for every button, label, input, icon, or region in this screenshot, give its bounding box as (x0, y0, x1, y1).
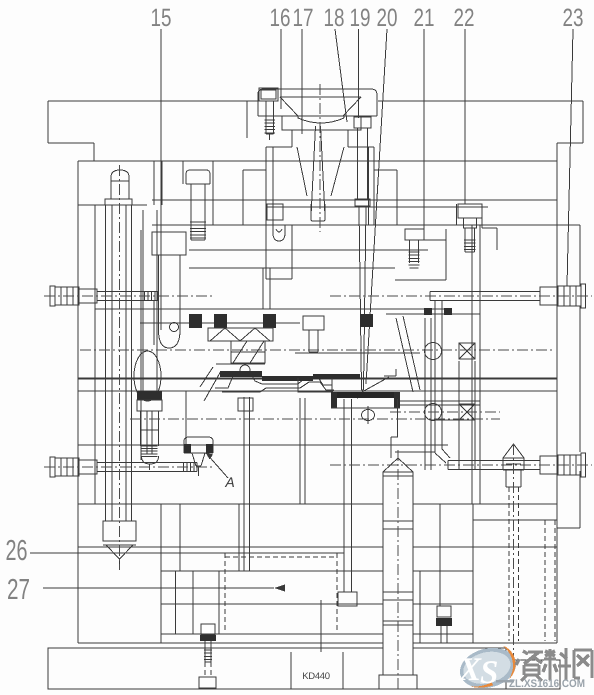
svg-text:A: A (224, 474, 234, 490)
side bolt centerline (44, 466, 215, 468)
detail mark c (384, 369, 396, 376)
small circle symbol (170, 323, 179, 332)
sprue channel (311, 126, 316, 216)
left inner edge line (94, 205, 96, 504)
sprue puller taper (192, 453, 205, 466)
cavity screw head (186, 170, 210, 184)
side bolt shaft (430, 291, 540, 293)
side bolt spring (55, 287, 79, 305)
screw 22 bore step (481, 204, 483, 228)
side bolt shaft (97, 462, 197, 464)
mid line 352 (295, 352, 420, 354)
guide pin tip (142, 456, 159, 464)
sprue bush neck (297, 147, 307, 196)
side bolt end bar (581, 284, 586, 308)
screw ring-bolt tip mark (269, 134, 271, 140)
watermark dash (496, 680, 514, 683)
insert pocket line2 (189, 267, 395, 269)
A-B parting line (152, 224, 557, 226)
pin 19 foot (355, 199, 370, 206)
ejector rod (343, 399, 345, 592)
center guide vertical (320, 600, 322, 652)
sprue bush shoulder (282, 130, 361, 147)
ejector plate inner vertical (218, 571, 220, 634)
screw ring-bolt head (261, 90, 276, 99)
runner plate top line (152, 199, 557, 201)
svg-text:KD440: KD440 (302, 671, 330, 682)
runner puller pin (273, 225, 285, 241)
side bolt collar (540, 287, 558, 305)
svg-text:S: S (480, 655, 498, 691)
insert screw shaft (308, 330, 310, 352)
screw ring-bolt threads (265, 120, 276, 133)
ejector retainer plate top (161, 570, 473, 572)
core plate bottom line (78, 378, 557, 380)
side bolt spring (558, 286, 581, 306)
top clamp plate (48, 100, 258, 102)
insert lower braces (233, 341, 264, 363)
watermark chinese characters (516, 648, 592, 681)
ring inner line (280, 96, 361, 98)
pocket wall left (265, 147, 267, 225)
sprue bush tip (311, 204, 325, 221)
product dark band (220, 371, 262, 377)
lower circle centerline (390, 411, 500, 413)
hidden edge in ejector plate 2 (224, 553, 226, 632)
pull plate right edge (579, 225, 581, 286)
ring recess right block (344, 116, 361, 130)
insert stack base (216, 363, 265, 365)
pointed screw body (505, 470, 507, 487)
slider block lines (395, 400, 480, 402)
guide bush column (458, 361, 460, 404)
callout 15 leader (160, 29, 162, 330)
ejector pin 2 (299, 398, 301, 504)
ejector plate verticals (175, 571, 177, 634)
right rail inner edge (472, 504, 474, 643)
return pin centerline (119, 165, 121, 570)
guide pin (142, 210, 144, 391)
middle box wall (185, 391, 187, 445)
guide bush X 2 (459, 404, 475, 420)
return pin point (106, 545, 133, 559)
ejector stop screw (201, 624, 215, 635)
insert screw head (303, 316, 324, 330)
callout 16 leader (280, 29, 282, 109)
o-ring seal 2 (189, 314, 202, 328)
pocket wall right (368, 147, 370, 225)
ejector plate split (161, 603, 473, 605)
latch wedge (204, 371, 221, 401)
guide bush X 1 (459, 343, 475, 359)
svg-text:26: 26 (6, 535, 28, 567)
screw ring-bolt shaft (265, 101, 267, 134)
side bolt threads (154, 292, 156, 301)
ring funnel left (280, 97, 298, 116)
product profile upper (215, 372, 332, 388)
runner boss (267, 204, 283, 220)
lower centerline dashes (130, 418, 500, 420)
svg-text:23: 23 (563, 4, 584, 32)
latch nut dark band (137, 391, 162, 400)
screw 21 pocket wall (445, 229, 447, 280)
bottom clamp plate (48, 648, 506, 689)
return pin cap (103, 521, 136, 541)
bolt bore wall (246, 101, 248, 138)
o-ring seal 3 (263, 314, 276, 328)
side bolt collar (79, 460, 97, 474)
angle pin (396, 318, 413, 392)
support pillar (383, 472, 413, 675)
pocket step2 (243, 169, 266, 171)
cavity screw threads (190, 222, 206, 238)
rail bottom line (78, 642, 557, 644)
guide pin threads (142, 446, 158, 456)
latch stem step (141, 429, 159, 431)
ring recess left block (282, 116, 298, 130)
runner plate bottom line (266, 206, 488, 208)
gate bracket (331, 407, 400, 409)
latch rod (140, 300, 142, 345)
svg-text:ZL.XS1616.COM: ZL.XS1616.COM (509, 678, 585, 690)
pin circle 1 (425, 343, 442, 360)
support plate top line (78, 390, 557, 392)
callout 27 leader (43, 587, 274, 589)
side bolt end bar (581, 453, 586, 477)
svg-text:20: 20 (377, 4, 398, 32)
pin circle 2 (425, 404, 442, 421)
svg-text:21: 21 (414, 4, 435, 32)
cavity screw shaft (190, 184, 192, 240)
spacer line (78, 546, 557, 548)
o-ring seal 1 (214, 314, 227, 328)
side bolt spring (558, 455, 581, 475)
sprue centerline (319, 84, 321, 232)
side bolt centerline (330, 295, 592, 297)
pin 19 tip (362, 389, 364, 391)
screw 22 neck (464, 218, 477, 228)
section symbol (362, 410, 375, 421)
screw 21 shaft (409, 240, 411, 263)
detail arrow A (206, 453, 228, 478)
pillar centerline (397, 450, 399, 692)
side bolt shaft (97, 291, 158, 293)
ejector rod foot (338, 592, 357, 606)
pocket wall x141 (140, 230, 142, 460)
latch bottom (159, 330, 181, 348)
side bolt shaft (448, 460, 540, 462)
KD440 cell (290, 652, 292, 689)
watermark logo ellipse (456, 642, 521, 694)
pointed screw head (503, 444, 524, 458)
latch cap (152, 232, 186, 255)
svg-text:22: 22 (454, 4, 475, 32)
svg-text:27: 27 (7, 574, 30, 606)
puller pin pocket (265, 225, 267, 279)
return pin flange (105, 199, 132, 205)
recess line 250 (189, 249, 428, 251)
callout 22 leader (464, 29, 466, 204)
ejector pin 1 (243, 397, 245, 571)
callout 19 leader (358, 29, 360, 118)
plate left edge (77, 161, 79, 643)
slider guide pair (471, 225, 473, 504)
plate right edge (556, 143, 558, 643)
stop screw bottom head (199, 677, 216, 688)
main horizontal centerline (80, 349, 555, 351)
pin 19 taper (359, 207, 362, 390)
callout 23 leader (567, 29, 573, 286)
latch upper walls (153, 161, 155, 205)
return pin shaft (111, 205, 113, 521)
insert pocket top line (95, 308, 445, 310)
return pin pocket floor (78, 204, 147, 206)
callout 18 leader (335, 29, 347, 122)
insert knob (240, 365, 250, 375)
side bolt spring (55, 458, 79, 476)
right bottom screw (437, 606, 451, 617)
callout 20 leader (366, 29, 387, 384)
screw 22 bore line (456, 204, 458, 225)
rail hidden lines (544, 520, 546, 641)
callout 17 leader (301, 29, 303, 134)
sprue puller head (184, 437, 213, 453)
latch nut block (137, 400, 162, 411)
detail c leader (362, 377, 389, 392)
pin shaft verticals (424, 318, 426, 470)
return pin head (111, 170, 129, 199)
insert truss braces (210, 328, 270, 341)
pillar bands (383, 475, 413, 477)
latch stem (140, 411, 142, 446)
gate marks (424, 308, 432, 315)
side bolt end bar (50, 286, 55, 306)
pointed screw hidden shaft (508, 487, 510, 641)
pull link elbow (435, 449, 450, 463)
screw 22 shaft (464, 228, 466, 252)
side bolt centerline (44, 295, 215, 297)
hidden edge in ejector plate (336, 553, 338, 632)
bottom screw guide line (439, 504, 441, 606)
svg-text:17: 17 (293, 4, 314, 32)
callout 26 leader (30, 552, 344, 554)
ejector pin 1 head (238, 398, 253, 411)
pin 19 head (354, 117, 371, 128)
gate bracket step (397, 399, 399, 437)
product profile lower (222, 382, 334, 392)
pin 19 shaft (357, 128, 359, 199)
slider block top (386, 313, 480, 315)
stop block on ejector plate (179, 504, 181, 571)
ring funnel right (343, 97, 361, 116)
side bolt collar (540, 456, 558, 474)
ejector plate bottom (161, 633, 473, 635)
insert lower box (231, 341, 265, 363)
o-ring seal 4 (360, 314, 373, 327)
side bolt collar (79, 289, 97, 303)
screw 22 threads (464, 240, 476, 250)
link rod (434, 301, 436, 453)
return pin sleeve (105, 205, 107, 521)
side bolt centerline (330, 464, 592, 466)
latch body (158, 255, 160, 330)
cavity screw bore (182, 161, 184, 184)
screw 21 head (405, 229, 424, 240)
svg-text:X: X (458, 652, 482, 688)
locating ring R1 (258, 89, 377, 116)
svg-text:16: 16 (270, 4, 291, 32)
side bolt end bar (50, 457, 55, 477)
pocket shelf (266, 146, 292, 148)
sprue cup arc (298, 116, 344, 123)
svg-text:18: 18 (324, 4, 345, 32)
screw 22 head (458, 204, 482, 218)
screw ring-bolt bore (259, 88, 278, 101)
pointed screw centerline (513, 444, 515, 660)
insert truss box (208, 328, 273, 341)
left rail inner edge (160, 504, 162, 643)
pocket line (78, 444, 448, 446)
screw 21 threads (409, 252, 420, 265)
gate seal bar (333, 392, 396, 398)
svg-text:15: 15 (151, 4, 172, 32)
gate bar end posts (331, 392, 337, 408)
slider block (298, 378, 358, 398)
callout 21 leader (423, 29, 425, 230)
svg-text:19: 19 (350, 4, 371, 32)
pillar foot (379, 675, 417, 689)
bottom right block (506, 660, 560, 689)
right rail step line (473, 519, 557, 521)
side bolt threads (193, 463, 195, 472)
latch roller (134, 351, 161, 401)
support plate bottom line (78, 503, 557, 505)
insert top line3 (140, 322, 300, 324)
ejector pin stub (262, 268, 264, 309)
